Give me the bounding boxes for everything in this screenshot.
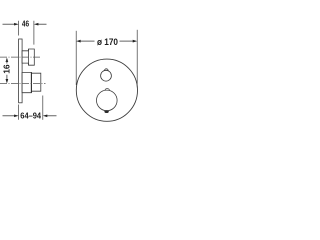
- dim 16 arrow down: [6, 79, 9, 84]
- upper knob front circle: [101, 70, 112, 81]
- upper knob side profile: [22, 49, 34, 65]
- dim 64-94 line left: [3, 115, 16, 117]
- lower knob marker: [104, 110, 108, 113]
- lower knob tab: [105, 89, 110, 94]
- svg-text:ø 170: ø 170: [97, 37, 118, 47]
- lower knob side profile: [22, 72, 41, 92]
- dim 170 arrow left: [76, 40, 81, 43]
- svg-text:64–94: 64–94: [20, 111, 41, 121]
- dim 46 ext line right: [33, 21, 35, 45]
- dim 170 line left: [80, 40, 95, 42]
- upper knob tab: [104, 69, 108, 73]
- dim 46 arrow left: [14, 23, 19, 26]
- dim 46 line left: [3, 23, 16, 25]
- dim 16 line: [6, 60, 8, 64]
- dim 46 ext line left: [18, 21, 20, 36]
- lower knob cap boundary: [30, 72, 32, 92]
- dim 46 arrow right: [34, 23, 39, 26]
- dim 64-94 ext line right: [42, 96, 44, 120]
- upper knob cap boundary: [28, 49, 30, 65]
- dim 16 arrow up: [6, 58, 9, 63]
- dim 46 line right: [38, 23, 47, 25]
- svg-text:46: 46: [22, 19, 29, 29]
- dim 64-94 line right: [46, 115, 56, 117]
- dim 16 line lower: [6, 75, 8, 81]
- dim 64-94 arrow right: [43, 114, 48, 117]
- lower centerline: [0, 82, 46, 84]
- dim 170 ext line right: [136, 30, 138, 88]
- upper centerline: [0, 56, 41, 58]
- svg-text:16: 16: [2, 64, 12, 74]
- lower knob front circle: [97, 90, 118, 111]
- wall plate side view: [19, 39, 23, 103]
- dim 170 arrow right: [133, 40, 138, 43]
- dim 64-94 ext line left: [18, 105, 20, 120]
- dim 170 line right: [120, 40, 134, 42]
- dim 64-94 arrow left: [14, 114, 19, 117]
- trim plate front circle: [76, 59, 137, 121]
- dim 170 ext line left: [75, 31, 77, 85]
